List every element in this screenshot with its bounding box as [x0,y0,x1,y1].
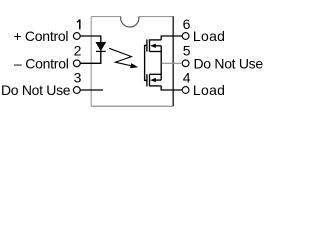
pin 1 terminal [73,33,80,40]
wire pin1 to LED anode [80,36,101,42]
package outline right edge [172,16,174,106]
svg-text:+ Control: + Control [13,28,68,44]
svg-text:3: 3 [74,69,82,85]
wire drain upper to pin6 [161,36,182,40]
pin-1 index notch [121,17,139,27]
svg-text:2: 2 [74,43,82,59]
svg-text:6: 6 [183,16,191,32]
pin 4 terminal [182,87,189,94]
svg-text:5: 5 [183,43,191,59]
svg-text:Load: Load [193,28,225,44]
package outline bottom edge [91,105,173,107]
light emission arrow [109,48,138,68]
wire pin5 stub (do not use) [162,62,182,64]
MOSFET upper (gate/channel) [147,39,161,51]
package outline top edge [91,16,173,18]
wire drain lower to pin4 [161,86,182,90]
pin 6 terminal [182,33,189,40]
package outline left edge [90,17,92,107]
svg-text:4: 4 [183,69,191,85]
pin 2 terminal [73,60,80,67]
source bus joining both MOSFETs [160,46,162,80]
gate bus [145,45,147,80]
wire pin3 stub [80,89,103,91]
pin number 1 [77,20,80,30]
pin 3 terminal [73,87,80,94]
pin 5 terminal [182,60,189,67]
LED input diode [96,42,106,51]
MOSFET lower (gate/channel) [147,74,161,86]
svg-text:Do Not Use: Do Not Use [1,82,71,98]
svg-text:– Control: – Control [14,55,69,71]
svg-text:Load: Load [193,82,225,98]
wire LED cathode to pin2 [80,51,101,63]
svg-text:Do Not Use: Do Not Use [194,55,264,71]
